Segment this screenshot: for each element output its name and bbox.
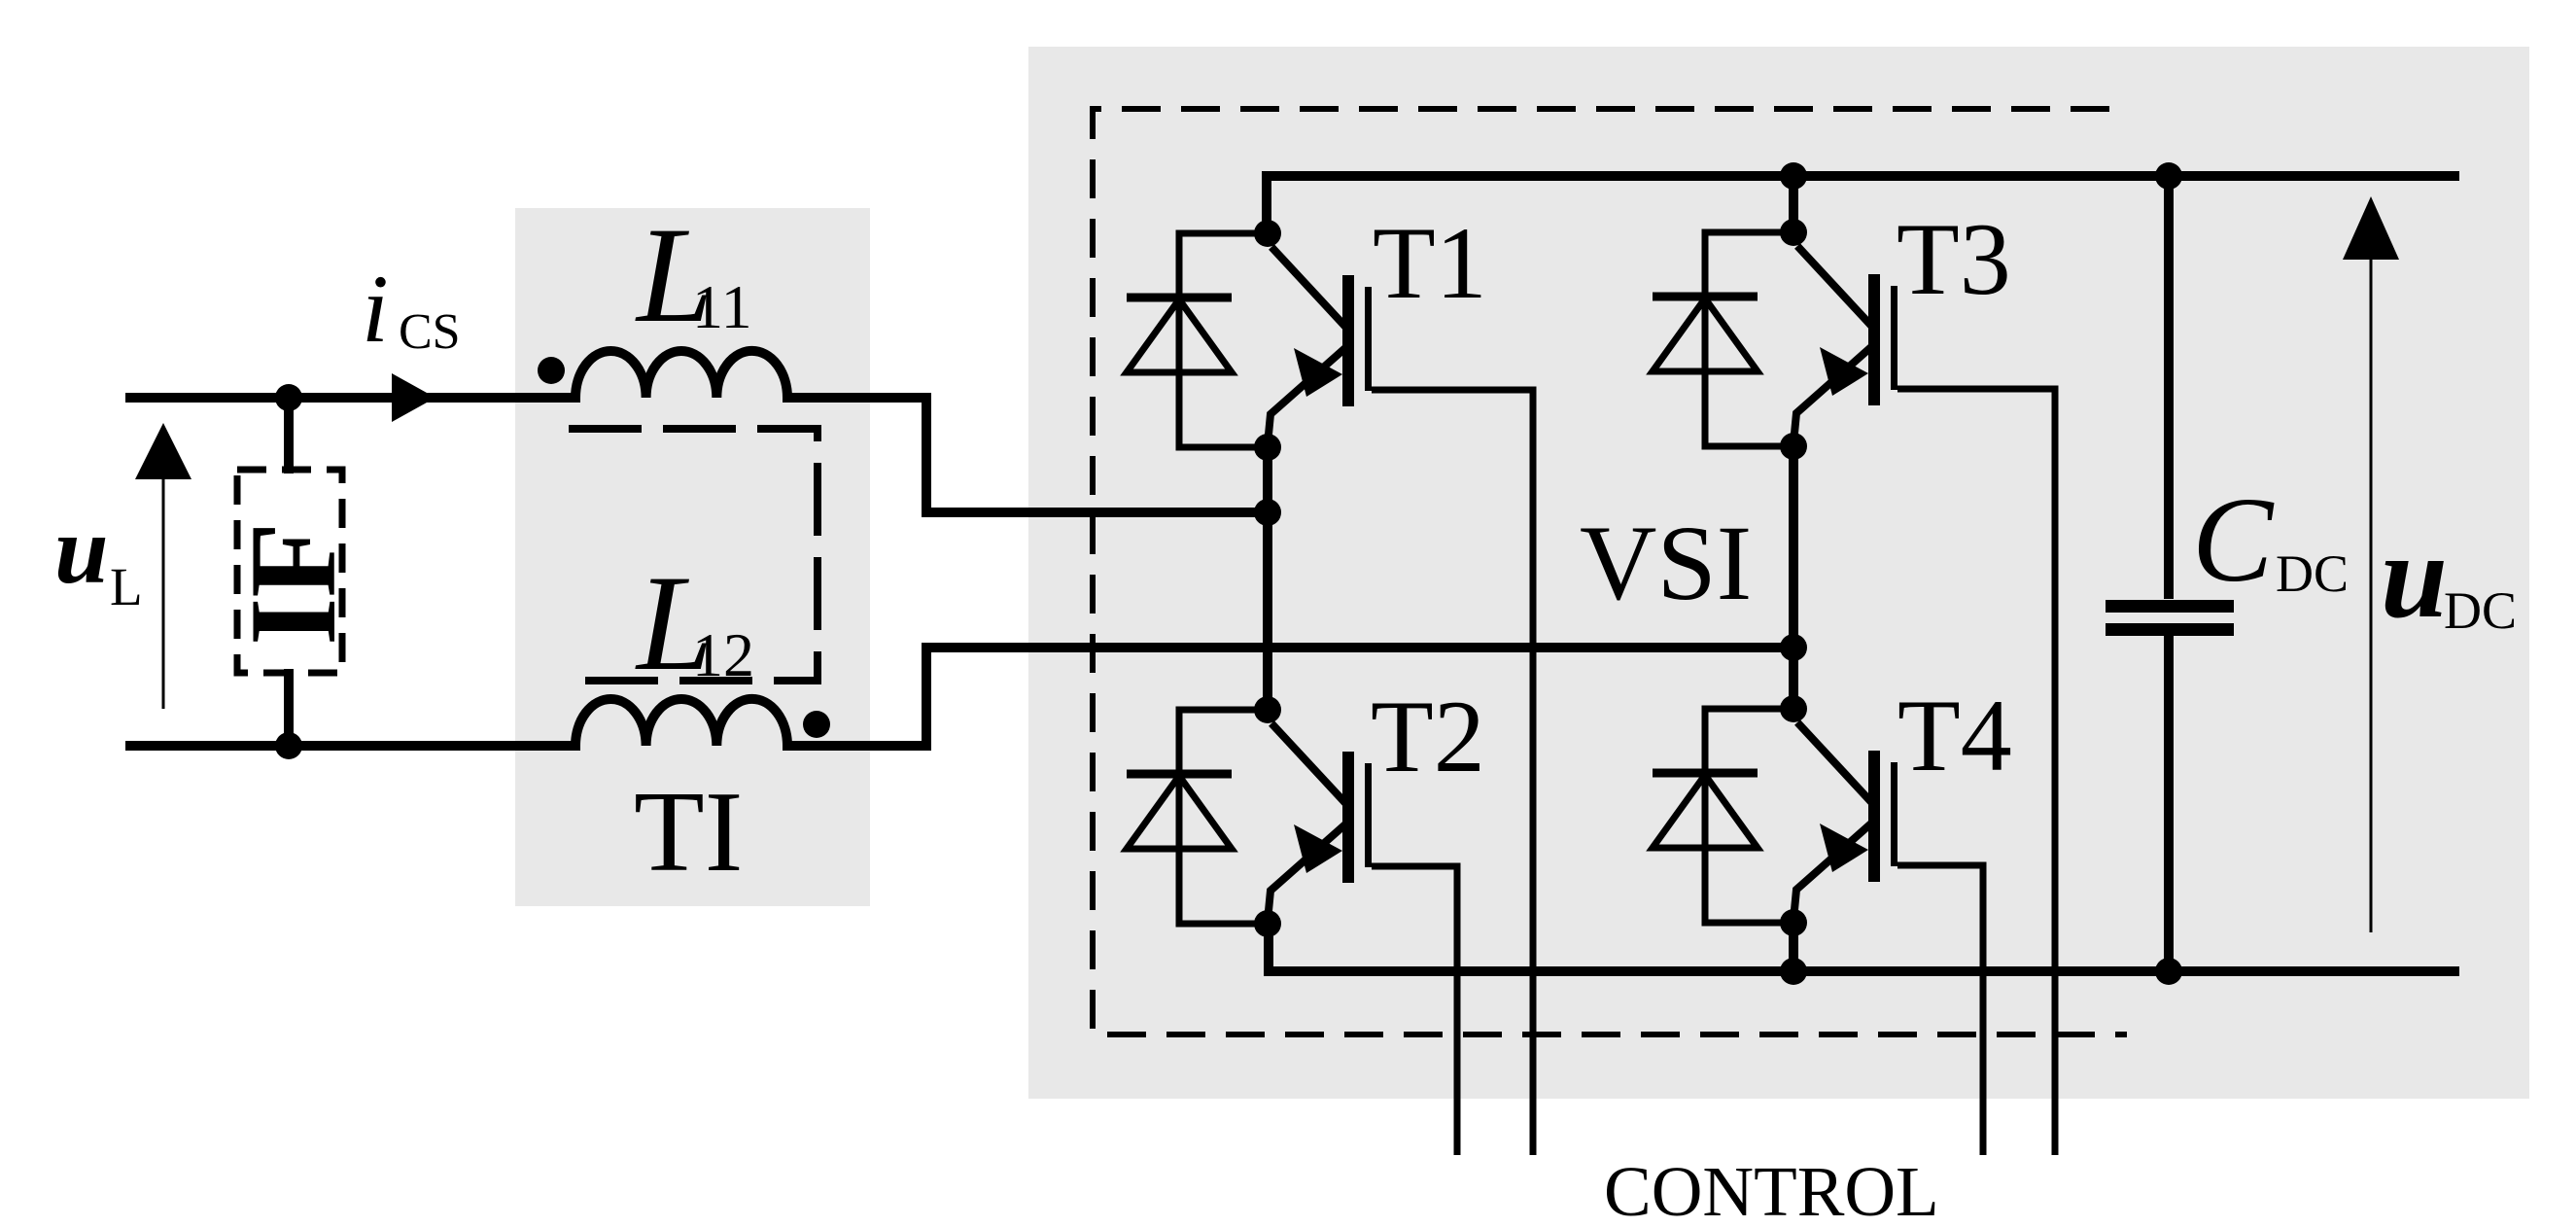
label uL [54, 496, 143, 616]
diode D1 [1127, 233, 1268, 447]
current arrow iCS [392, 373, 435, 422]
svg-text:T2: T2 [1371, 680, 1485, 793]
label L12 [635, 547, 754, 699]
capacitor CDC top plate [2106, 600, 2234, 613]
svg-text:T1: T1 [1373, 206, 1487, 320]
capacitor branch bottom wire [2164, 636, 2174, 971]
svg-text:T4: T4 [1897, 679, 2012, 792]
junction top left [275, 384, 302, 411]
diode D2 [1127, 710, 1268, 924]
svg-text:L: L [110, 557, 143, 616]
junction T2 collector [1254, 696, 1281, 723]
junction T4 emitter [1780, 909, 1807, 936]
svg-text:C: C [2192, 473, 2275, 608]
svg-text:u: u [2381, 509, 2448, 643]
svg-text:i: i [362, 255, 389, 363]
junction T1 emitter [1254, 434, 1281, 461]
voltage arrow uL [135, 423, 191, 709]
diode D3 [1653, 232, 1793, 446]
transistor T1 [1268, 247, 1372, 444]
svg-text:IF: IF [226, 522, 362, 646]
junction T1 collector [1254, 220, 1281, 247]
wire IF bottom [284, 669, 294, 746]
svg-text:DC: DC [2444, 581, 2517, 640]
transistor T2 [1268, 723, 1372, 921]
left leg mid wire [1263, 442, 1272, 715]
svg-text:VSI: VSI [1580, 504, 1752, 622]
junction T3 collector [1780, 219, 1807, 246]
capacitor branch top wire [2164, 176, 2174, 599]
right leg top wire [1789, 176, 1798, 237]
label iCS [362, 255, 461, 363]
gate wire T1 [1372, 390, 1533, 1155]
svg-text:T3: T3 [1897, 202, 2011, 316]
svg-text:11: 11 [692, 272, 752, 341]
svg-text:u: u [54, 496, 109, 604]
wire L11 to VSI node A [783, 398, 1269, 512]
transistor T4 [1793, 722, 1897, 920]
bottom DC rail [1269, 920, 2459, 971]
svg-text:TI: TI [634, 767, 743, 895]
svg-text:12: 12 [692, 620, 754, 689]
gate wire T4 [1897, 865, 1983, 1155]
right leg mid wire [1789, 444, 1798, 714]
junction bottom rail CDC [2155, 958, 2182, 985]
inductor L12 [575, 699, 787, 746]
wire L12 to VSI node B [783, 648, 1793, 746]
inductor L11 [575, 351, 787, 398]
capacitor CDC bottom plate [2106, 623, 2234, 636]
junction top rail CDC [2155, 162, 2182, 190]
svg-text:CS: CS [399, 304, 461, 360]
label uDC [2381, 509, 2517, 643]
gate wire T3 [1897, 389, 2055, 1155]
wire top left [125, 393, 580, 403]
wire IF top [284, 398, 294, 473]
VSI dashed boundary [1093, 109, 2127, 1034]
svg-text:CONTROL: CONTROL [1604, 1152, 1939, 1227]
node B junction [1780, 634, 1807, 661]
filter block IF [237, 470, 342, 673]
gate wire T2 [1372, 866, 1457, 1155]
junction T3 emitter [1780, 433, 1807, 460]
VSI block background [1028, 47, 2529, 1099]
right leg bottom wire [1789, 919, 1798, 971]
diode D4 [1653, 709, 1793, 923]
top DC rail [1267, 176, 2459, 238]
junction T4 collector [1780, 695, 1807, 722]
wire bottom left [125, 741, 580, 751]
polarity dot L12 [803, 711, 830, 738]
junction T2 emitter [1254, 910, 1281, 937]
voltage arrow uDC [2343, 196, 2399, 932]
label CDC [2192, 473, 2349, 608]
polarity dot L11 [538, 357, 565, 384]
label L11 [635, 199, 752, 351]
junction top rail T3 [1780, 162, 1807, 190]
transformer core [569, 429, 818, 681]
transistor T3 [1793, 246, 1897, 443]
node A junction [1254, 499, 1281, 526]
junction bottom rail T4 [1780, 958, 1807, 985]
TI block background [515, 208, 870, 906]
svg-text:DC: DC [2276, 544, 2349, 603]
junction bottom left [275, 732, 302, 759]
